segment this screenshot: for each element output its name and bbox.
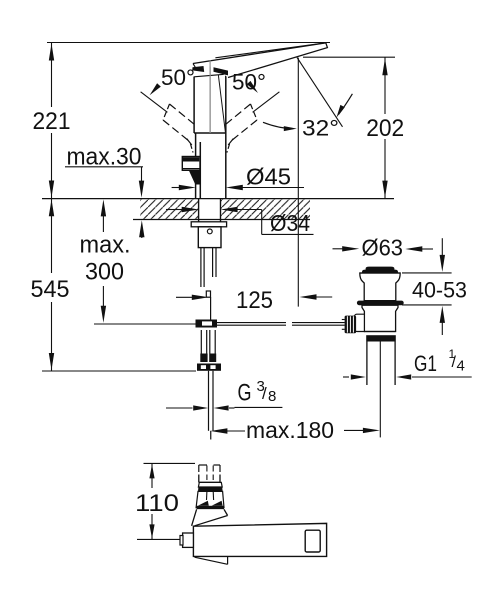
svg-text:Ø45: Ø45 xyxy=(246,164,291,190)
svg-text:max.: max. xyxy=(80,232,131,259)
svg-text:G1: G1 xyxy=(414,351,437,376)
svg-text:545: 545 xyxy=(31,276,70,303)
svg-text:50°: 50° xyxy=(232,70,266,95)
svg-text:50°: 50° xyxy=(161,65,195,90)
svg-text:Ø34: Ø34 xyxy=(270,210,310,236)
svg-text:202: 202 xyxy=(366,115,404,142)
svg-text:300: 300 xyxy=(85,259,124,286)
svg-text:Ø63: Ø63 xyxy=(362,235,404,261)
svg-text:40-53: 40-53 xyxy=(412,278,467,303)
svg-text:32°: 32° xyxy=(302,116,339,141)
svg-text:8: 8 xyxy=(268,388,276,405)
svg-text:/: / xyxy=(262,384,267,403)
svg-text:110: 110 xyxy=(135,490,179,517)
svg-text:125: 125 xyxy=(236,287,273,314)
svg-text:221: 221 xyxy=(33,108,71,135)
svg-text:G: G xyxy=(238,380,252,407)
svg-text:4: 4 xyxy=(457,358,465,375)
svg-text:max.180: max.180 xyxy=(246,417,334,443)
